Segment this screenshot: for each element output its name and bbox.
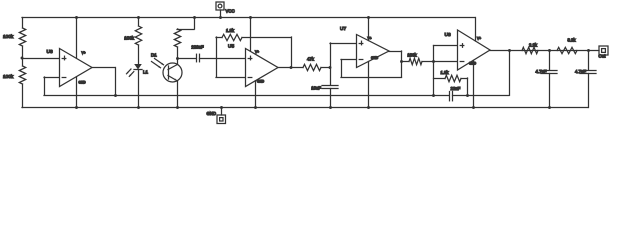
svg-text:GND: GND [257, 79, 265, 83]
svg-text:4.7uF: 4.7uF [575, 69, 586, 74]
svg-text:100k: 100k [3, 34, 14, 39]
svg-text:U7: U7 [340, 26, 346, 32]
svg-text:1.8k: 1.8k [226, 28, 235, 33]
svg-text:100k: 100k [124, 36, 135, 41]
svg-text:V+: V+ [255, 50, 259, 54]
svg-text:Out: Out [599, 54, 607, 59]
svg-text:GND: GND [206, 111, 216, 116]
svg-text:2.2k: 2.2k [529, 43, 538, 48]
svg-text:L1: L1 [143, 70, 149, 75]
svg-text:1.8k: 1.8k [440, 70, 449, 75]
svg-text:U5: U5 [228, 43, 234, 49]
svg-text:22uF: 22uF [451, 86, 461, 91]
svg-text:U8: U8 [47, 49, 53, 55]
svg-text:U6: U6 [445, 32, 451, 38]
svg-text:GND: GND [371, 56, 379, 60]
svg-text:100k: 100k [407, 53, 417, 58]
svg-text:D1: D1 [151, 53, 157, 58]
svg-text:4.7uF: 4.7uF [536, 69, 547, 74]
svg-text:V+: V+ [82, 51, 86, 55]
svg-text:V+: V+ [477, 36, 481, 40]
svg-text:VCC: VCC [226, 8, 235, 13]
svg-text:220nF: 220nF [191, 45, 204, 50]
svg-text:GND: GND [79, 81, 87, 85]
svg-text:47k: 47k [307, 57, 315, 62]
svg-text:3.2k: 3.2k [567, 38, 576, 43]
svg-text:100k: 100k [3, 74, 14, 79]
svg-text:10uF: 10uF [311, 86, 321, 91]
